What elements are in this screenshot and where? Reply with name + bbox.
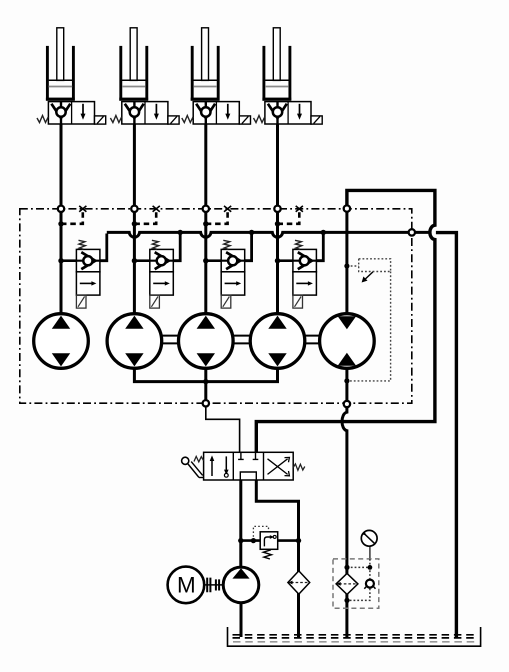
flow divider motor 2 bbox=[107, 314, 162, 369]
flow divider motor 1 bbox=[34, 314, 89, 369]
cylinder and holding valve assembly 4 bbox=[254, 28, 323, 124]
directional valve centre position blocked ports bbox=[238, 452, 258, 480]
wire motor return collector bbox=[134, 368, 277, 381]
directional valve left position arrows bbox=[210, 455, 229, 477]
wire cylinder2 to motor2 bbox=[133, 124, 136, 314]
node circle 2 bbox=[131, 206, 137, 212]
directional valve right spring bbox=[293, 464, 305, 470]
node circle 4 bbox=[274, 206, 280, 212]
test point X and pilot line 3 bbox=[203, 206, 231, 227]
relief valve pilot dotted line bbox=[253, 526, 268, 540]
test point X and pilot line 2 bbox=[132, 206, 160, 227]
svg-text:M: M bbox=[177, 573, 196, 598]
junction on bus bbox=[249, 230, 254, 235]
shaft motor4-motor5 bbox=[305, 336, 320, 344]
wire motor3 return drop bbox=[204, 368, 207, 401]
relief valve spring bbox=[263, 550, 271, 559]
pilot valve 2 bbox=[132, 234, 181, 309]
shaft motor3-motor4 bbox=[233, 336, 250, 344]
wire directional valve to pump bbox=[239, 480, 242, 567]
wire cylinder3 to motor3 bbox=[204, 124, 207, 314]
node circle 6 bbox=[203, 400, 209, 406]
node circle 5 bbox=[344, 205, 350, 211]
filter on return line bbox=[288, 571, 310, 594]
wire relief valve outlet bbox=[278, 539, 299, 542]
node circle 3 bbox=[203, 206, 209, 212]
tank bbox=[228, 627, 481, 646]
bypass check valve bbox=[364, 580, 375, 589]
directional valve body bbox=[204, 452, 294, 480]
wire motor5 supply drop bbox=[345, 209, 348, 314]
junction pilot tap bbox=[251, 538, 256, 543]
node circle 8 bbox=[409, 229, 415, 235]
wire relief valve branch bbox=[241, 539, 260, 542]
directional valve lever actuator bbox=[182, 457, 204, 477]
wire bus to right drop line bbox=[436, 233, 457, 637]
motor5 displacement control dotted box bbox=[344, 259, 390, 384]
wire cylinder1 to motor1 bbox=[60, 124, 63, 314]
dashed enclosure flow-divider block bbox=[20, 209, 412, 403]
directional valve right position crossed arrows bbox=[268, 457, 290, 475]
junction return line bbox=[296, 538, 301, 543]
test point X and pilot line 1 bbox=[58, 206, 86, 227]
junction on bus bbox=[321, 230, 326, 235]
node circle 1 bbox=[58, 206, 64, 212]
cylinder and holding valve assembly 1 bbox=[37, 28, 106, 124]
electric motor M bbox=[168, 567, 205, 604]
node circle 7 bbox=[344, 401, 350, 407]
variable unit motor 5 bbox=[320, 314, 375, 369]
cylinder and holding valve assembly 3 bbox=[182, 28, 251, 124]
junction dots return filter bbox=[344, 565, 372, 603]
wire motor5 return down to tank filter bbox=[342, 368, 347, 637]
pilot valve 4 bbox=[275, 234, 324, 309]
pilot valve 1 bbox=[58, 234, 107, 309]
wire motor5 supply loop over to directional valve bbox=[256, 190, 435, 452]
shaft motor2-motor3 bbox=[162, 336, 179, 344]
shaft coupling bbox=[204, 578, 223, 593]
pump bbox=[223, 567, 259, 603]
return filter dashed box bbox=[333, 559, 379, 608]
wire pump suction bbox=[240, 603, 243, 637]
wire return to directional valve (thin) bbox=[206, 406, 240, 453]
relief valve bbox=[260, 532, 278, 550]
wire pilot drain bus bbox=[107, 232, 429, 237]
junction pump line bbox=[238, 538, 243, 543]
junction on bus bbox=[178, 230, 183, 235]
flow divider motor 4 bbox=[250, 314, 305, 369]
return filter element bbox=[336, 573, 358, 594]
wire directional valve to tank via filter bbox=[256, 480, 298, 637]
pilot valve 3 bbox=[203, 234, 252, 309]
flow divider motor 3 bbox=[179, 314, 234, 369]
junction collector bbox=[203, 379, 208, 384]
test point X and pilot line 4 bbox=[275, 206, 303, 227]
bypass check valve dotted links bbox=[347, 559, 370, 601]
cylinder and holding valve assembly 2 bbox=[110, 28, 179, 124]
pressure gauge bbox=[361, 530, 377, 559]
wire cylinder4 to motor4 bbox=[276, 124, 279, 314]
directional valve left spring bbox=[194, 456, 204, 462]
